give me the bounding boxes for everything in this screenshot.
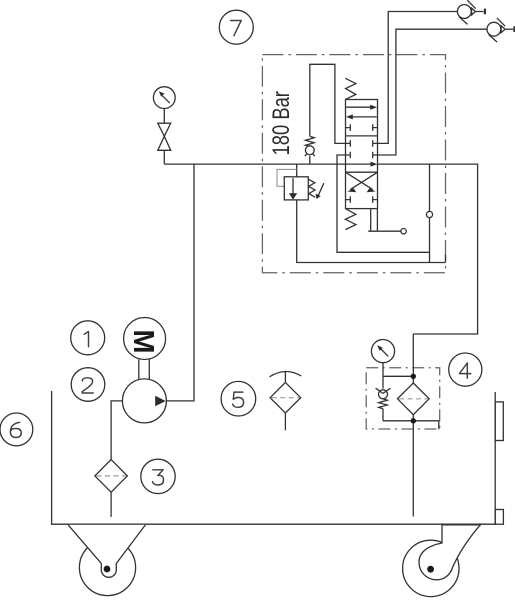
- svg-text:180 Bar: 180 Bar: [266, 91, 294, 155]
- svg-text:M: M: [127, 329, 159, 353]
